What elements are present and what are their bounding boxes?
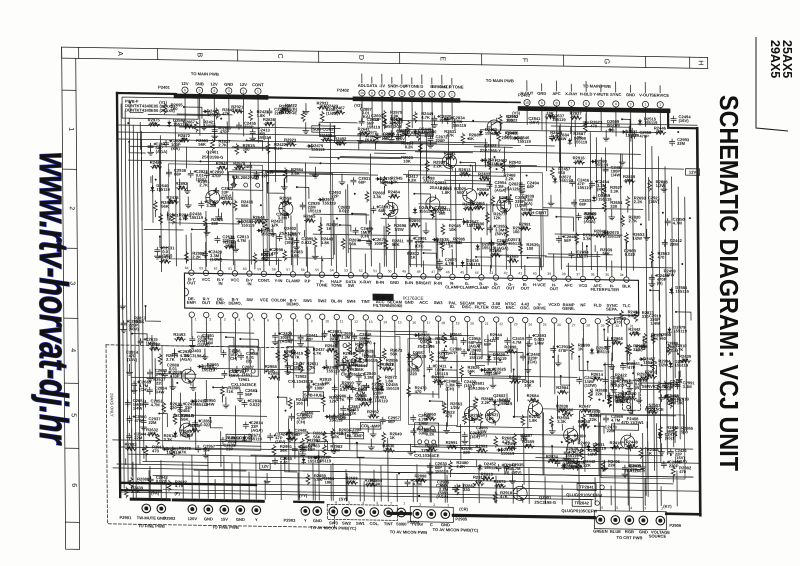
- IC pin 38 (top): [566, 276, 571, 281]
- wire: [128, 454, 700, 463]
- wire: [542, 413, 544, 475]
- svg-text:R26693.3K: R26693.3K: [373, 190, 386, 199]
- svg-text:1: 1: [451, 93, 453, 97]
- svg-text:3.58OSC.: 3.58OSC.: [491, 301, 501, 310]
- capacitor C2432: [148, 477, 153, 484]
- transistor transistor: [528, 402, 542, 416]
- connector pin PA-1: [142, 504, 151, 513]
- capacitor C2494: [507, 197, 512, 204]
- svg-text:D2438155119: D2438155119: [190, 211, 204, 220]
- resistor R2472: [463, 207, 474, 211]
- ground: [423, 229, 429, 234]
- svg-text:VCE: VCE: [260, 297, 269, 302]
- resistor R2414: [347, 481, 358, 485]
- svg-text:VCXO: VCXO: [548, 302, 560, 307]
- svg-text:VCD: VCD: [579, 283, 588, 288]
- svg-text:R26224.7K: R26224.7K: [175, 479, 188, 488]
- wire: [307, 325, 310, 395]
- wire: [431, 78, 433, 84]
- IC pin 52 (top): [363, 273, 368, 278]
- resistor R2424: [254, 220, 265, 224]
- wire: [175, 121, 176, 266]
- IC pin 64 (top): [189, 270, 194, 275]
- wire: [486, 204, 488, 235]
- ground: [285, 370, 291, 375]
- IC pin 14 (bottom): [378, 315, 383, 320]
- svg-text:Y-IN: Y-IN: [274, 278, 282, 283]
- ground: [120, 304, 126, 309]
- svg-text:55: 55: [315, 268, 319, 272]
- svg-text:TP2842: TP2842: [575, 500, 590, 505]
- wire: [492, 377, 494, 383]
- wire: [423, 327, 426, 391]
- svg-text:D2571155119: D2571155119: [508, 237, 522, 246]
- wire: [622, 119, 630, 132]
- junction: [662, 212, 664, 214]
- resistor R2487: [326, 348, 337, 352]
- resistor R2427: [156, 434, 160, 445]
- svg-text:R26991K: R26991K: [578, 343, 591, 352]
- resistor R2439: [167, 480, 171, 491]
- resistor R2480: [505, 350, 516, 354]
- svg-text:1: 1: [447, 503, 449, 507]
- wire: [158, 146, 160, 192]
- wire: [527, 410, 529, 416]
- resistor R2464: [171, 447, 175, 458]
- connector pin V3-4: [613, 101, 619, 107]
- capacitor C2444: [589, 181, 594, 188]
- svg-text:R2862330: R2862330: [463, 483, 476, 492]
- connector pin SY-1: [397, 508, 406, 517]
- wire: [184, 107, 202, 118]
- svg-text:63: 63: [199, 266, 203, 270]
- capacitor C2496: [298, 335, 303, 342]
- wire: [470, 202, 473, 269]
- connector pin V3-3: [627, 101, 633, 107]
- resistor R2482: [383, 118, 387, 129]
- resistor R2496: [479, 177, 490, 181]
- svg-text:R29845.6K: R29845.6K: [291, 167, 304, 176]
- ground: [147, 377, 153, 382]
- ground: [203, 453, 209, 458]
- svg-text:3: 3: [226, 499, 228, 503]
- wire: [587, 414, 676, 415]
- wire: [431, 377, 517, 378]
- wire: [370, 439, 372, 445]
- svg-text:C2921(16V): C2921(16V): [648, 195, 661, 204]
- svg-text:C29913.3M: C29913.3M: [683, 380, 696, 389]
- resistor R2425: [383, 448, 394, 452]
- capacitor C2463: [411, 428, 416, 435]
- resistor R2443: [667, 344, 671, 355]
- svg-text:P2905: P2905: [455, 516, 468, 521]
- wire: [441, 250, 443, 256]
- wire: [498, 141, 500, 147]
- wire: [629, 85, 631, 92]
- svg-text:54: 54: [330, 268, 334, 272]
- resistor R2450: [163, 103, 167, 114]
- resistor R2460: [287, 437, 298, 441]
- svg-text:56: 56: [301, 268, 305, 272]
- wire: [659, 108, 661, 132]
- resistor R2478: [620, 310, 624, 321]
- IC pin 55 (top): [319, 272, 324, 277]
- wire: [660, 444, 662, 450]
- svg-text:R28161/2W: R28161/2W: [656, 179, 669, 188]
- wire: [240, 339, 258, 350]
- wire: [169, 223, 239, 224]
- wire: [285, 458, 297, 472]
- diode D2536: [314, 456, 315, 458]
- svg-text:NTSCENC.: NTSCENC.: [505, 301, 516, 310]
- resistor R2438: [153, 201, 157, 212]
- wire: [556, 106, 558, 135]
- resistor R2499: [441, 224, 445, 235]
- wire: [638, 392, 640, 398]
- wire: [233, 170, 296, 171]
- IC pin 24 (bottom): [523, 317, 528, 322]
- wire: [318, 451, 320, 500]
- ground: [212, 134, 218, 139]
- svg-text:8: 8: [381, 91, 383, 95]
- wire: [672, 476, 674, 482]
- connector pin V2-6: [399, 90, 405, 96]
- wire: [268, 183, 284, 193]
- svg-text:Y-MUTE: Y-MUTE: [593, 92, 609, 97]
- wire: [541, 84, 543, 91]
- transistor transistor: [463, 189, 477, 203]
- capacitor C2496: [407, 238, 412, 245]
- main PWB outline: [117, 92, 176, 95]
- wire: [678, 371, 680, 377]
- connector pin V1-2: [240, 88, 246, 94]
- delay line SL2401: [229, 172, 263, 191]
- connector pin P-1: [252, 506, 261, 515]
- ground: [229, 243, 235, 248]
- svg-text:1: 1: [257, 89, 259, 93]
- wire: [350, 326, 352, 355]
- svg-text:C2960470P: C2960470P: [134, 414, 147, 423]
- wire: [408, 327, 410, 384]
- resistor R2430: [447, 445, 458, 449]
- wire: [160, 136, 161, 272]
- capacitor C2495: [294, 238, 299, 245]
- wire: [128, 364, 130, 370]
- svg-text:6: 6: [585, 102, 587, 106]
- junction: [598, 399, 600, 401]
- wire: [231, 464, 233, 499]
- resistor R2475: [575, 460, 579, 471]
- capacitor C2422: [427, 463, 432, 470]
- IC pin 20 (bottom): [465, 316, 470, 321]
- resistor R2444: [570, 343, 574, 354]
- wire: [375, 143, 377, 149]
- ground: [303, 109, 309, 114]
- wire: [660, 487, 662, 506]
- wire: [585, 82, 587, 92]
- junction: [632, 372, 634, 374]
- ground: [126, 370, 132, 375]
- ground: [233, 247, 239, 252]
- svg-text:C2890470P: C2890470P: [212, 169, 225, 178]
- ground: [388, 138, 394, 143]
- resistor R2427: [382, 432, 386, 443]
- ground: [437, 266, 443, 271]
- junction: [445, 345, 447, 347]
- wire: [340, 225, 351, 231]
- resistor P2408 fusible: [612, 424, 639, 430]
- wire: [574, 120, 576, 146]
- resistor R2459: [272, 445, 276, 456]
- svg-text:TO AV MICON PWB: TO AV MICON PWB: [390, 529, 428, 535]
- resistor R2445: [366, 483, 377, 487]
- wire: [607, 337, 610, 402]
- resistor R2440: [545, 115, 556, 119]
- svg-text:CXL10435CE: CXL10435CE: [288, 379, 314, 384]
- wire: [526, 81, 528, 91]
- diode D2568: [603, 232, 604, 234]
- diode D2576: [257, 230, 258, 232]
- diode D2668: [593, 196, 595, 197]
- ground: [611, 388, 617, 393]
- resistor R2421: [288, 398, 292, 409]
- svg-text:3: 3: [224, 318, 226, 322]
- IC pin 41 (top): [522, 275, 527, 280]
- resistor R2444: [283, 351, 287, 362]
- wire: [153, 476, 673, 484]
- wire: [163, 490, 643, 498]
- wire: [456, 355, 458, 386]
- wire: [194, 469, 246, 472]
- connector pin V1-4: [211, 87, 217, 93]
- resistor R2414: [628, 344, 632, 355]
- wire: [314, 481, 316, 500]
- wire: [568, 329, 571, 401]
- svg-text:R-YOUT: R-YOUT: [202, 296, 211, 305]
- transistor Q2403: [181, 369, 195, 383]
- resistor R2457: [485, 212, 489, 223]
- wire: [235, 241, 237, 247]
- svg-text:18: 18: [441, 321, 445, 325]
- service switch S2601: [622, 380, 640, 410]
- resistor R2496: [520, 227, 531, 231]
- ground: [364, 337, 370, 342]
- diode D2564: [168, 121, 170, 122]
- capacitor C2473: [243, 422, 248, 429]
- capacitor C2436: [411, 415, 416, 422]
- svg-text:1: 1: [403, 502, 405, 506]
- ground: [270, 231, 276, 236]
- svg-text:C294422M: C294422M: [134, 431, 147, 440]
- wire: [122, 298, 124, 304]
- svg-text:R26932.2K: R26932.2K: [634, 195, 647, 204]
- ground: [490, 383, 496, 388]
- svg-text:TO AV MICON PWB(TC): TO AV MICON PWB(TC): [433, 527, 479, 533]
- svg-text:R28948.2K: R28948.2K: [665, 381, 678, 390]
- capacitor C2471: [234, 366, 239, 373]
- resistor R2447: [427, 337, 431, 348]
- diode D2441: [243, 435, 245, 436]
- capacitor C2469: [238, 353, 243, 360]
- resistor R2421: [425, 417, 436, 421]
- svg-text:GND: GND: [626, 92, 635, 97]
- capacitor C2458: [204, 171, 209, 178]
- svg-text:C29690.022: C29690.022: [624, 248, 637, 257]
- wire: [665, 167, 667, 455]
- wire: [561, 376, 570, 385]
- wire: [348, 397, 350, 450]
- capacitor C2481: [163, 140, 168, 147]
- svg-text:D2479155119: D2479155119: [311, 143, 325, 152]
- wire: [272, 225, 274, 231]
- transistor Q2601: [464, 407, 478, 421]
- svg-text:R262956K: R262956K: [468, 365, 481, 374]
- capacitor C2437: [212, 127, 217, 134]
- wire: [477, 204, 479, 210]
- IC pin 12 (bottom): [349, 314, 354, 319]
- wire: [481, 328, 483, 358]
- svg-text:C29553.3M: C29553.3M: [206, 199, 219, 208]
- wire: [383, 226, 385, 266]
- ground: [620, 397, 626, 402]
- svg-text:R2865560: R2865560: [681, 426, 694, 435]
- wire: [250, 162, 253, 264]
- resistor R2490: [179, 138, 190, 142]
- wire: [614, 423, 617, 511]
- connector pin CR-2: [427, 510, 436, 519]
- block Q2403 outline: [162, 346, 261, 451]
- wire: [674, 331, 676, 378]
- wire: [192, 379, 194, 385]
- IC pin 61 (top): [232, 271, 237, 276]
- wire: [412, 447, 481, 448]
- svg-text:(YY): (YY): [299, 493, 308, 498]
- wire: [503, 147, 505, 173]
- svg-text:58: 58: [272, 267, 276, 271]
- svg-text:H: H: [697, 60, 704, 65]
- junction: [155, 179, 157, 181]
- capacitor C2448: [221, 350, 226, 357]
- svg-text:5: 5: [411, 92, 413, 96]
- capacitor C2481: [131, 381, 136, 388]
- resistor R2917: [473, 482, 484, 486]
- svg-text:C292922M155119: C292922M155119: [308, 201, 322, 214]
- svg-text:50/60: 50/60: [396, 521, 407, 526]
- resistor R2497: [608, 396, 612, 407]
- diode D2645: [480, 130, 482, 131]
- resistor R2415: [629, 332, 640, 336]
- wire: [460, 162, 475, 171]
- wire: [527, 342, 529, 389]
- ground: [281, 185, 287, 190]
- wire: [332, 463, 334, 500]
- wire: [357, 443, 364, 457]
- ground: [340, 367, 346, 372]
- wire: [628, 126, 630, 184]
- wire: [191, 455, 193, 498]
- svg-text:C291447P(16V): C291447P(16V): [126, 350, 139, 363]
- connector P2905 (CR): [410, 507, 453, 523]
- wire: [490, 134, 491, 268]
- wire: [249, 324, 251, 366]
- resistor R2481: [612, 341, 623, 345]
- SUB-CONT box: [312, 126, 335, 133]
- resistor R2414: [512, 434, 516, 445]
- junction: [267, 227, 269, 229]
- capacitor C2410: [405, 480, 410, 487]
- wire: [263, 249, 265, 265]
- wire: [125, 111, 128, 482]
- svg-text:P2902: P2902: [164, 516, 177, 521]
- svg-text:C24504.7M: C24504.7M: [673, 217, 686, 226]
- resistor R2416: [647, 410, 658, 414]
- capacitor C2430: [627, 379, 632, 386]
- wire: [248, 240, 250, 265]
- ground: [298, 342, 304, 347]
- svg-text:28: 28: [586, 323, 590, 327]
- wire: [556, 396, 558, 419]
- wire: [410, 142, 487, 143]
- ground: [627, 386, 633, 391]
- capacitor C2478: [277, 234, 282, 241]
- diode D2609: [608, 129, 609, 131]
- filter T2903: [415, 423, 439, 447]
- connector pin V3-7: [568, 100, 574, 106]
- wire: [495, 247, 497, 269]
- wire: [411, 97, 413, 128]
- capacitor C2451: [570, 179, 575, 186]
- wire: [275, 235, 277, 265]
- IC pin 29 (bottom): [595, 318, 600, 323]
- wire: [213, 387, 227, 392]
- wire: [650, 290, 659, 300]
- svg-text:P2401: P2401: [158, 85, 171, 90]
- capacitor C2433: [285, 363, 290, 370]
- diode D2436: [670, 362, 672, 363]
- resistor R2419: [233, 200, 237, 211]
- resistor R2466: [431, 208, 435, 219]
- capacitor C2499: [352, 334, 357, 341]
- wire: [113, 440, 693, 449]
- wire: [234, 324, 236, 359]
- svg-text:R26732.7K: R26732.7K: [166, 353, 179, 362]
- resistor R2441: [276, 350, 280, 361]
- svg-text:3: 3: [630, 102, 632, 106]
- wire: [641, 365, 656, 374]
- resistor R2472: [263, 219, 267, 230]
- svg-text:R260822K: R260822K: [595, 388, 608, 397]
- wire: [628, 443, 631, 511]
- wire: [348, 374, 350, 380]
- svg-text:SUB-CONT: SUB-CONT: [312, 127, 334, 132]
- wire: [359, 240, 371, 248]
- capacitor C2470: [143, 400, 148, 407]
- resistor R2454: [410, 223, 421, 227]
- diode D2431: [494, 400, 496, 401]
- resistor R2417: [621, 215, 625, 226]
- capacitor C2429: [438, 380, 443, 387]
- svg-text:B-IN: B-IN: [405, 280, 413, 285]
- wire: [312, 463, 314, 500]
- wire: [545, 114, 547, 171]
- wire: [455, 168, 458, 267]
- wire: [117, 464, 208, 465]
- resistor R2490: [285, 142, 296, 146]
- wire: [378, 385, 380, 391]
- svg-text:R299156K: R299156K: [280, 444, 293, 453]
- wire: [611, 359, 613, 365]
- wire: [419, 145, 422, 267]
